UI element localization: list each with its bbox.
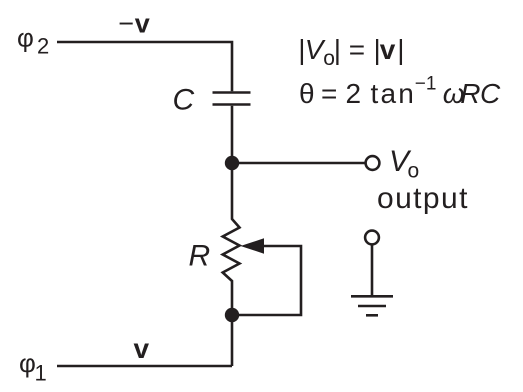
- svg-text:θ=2tan−1ωRC: θ=2tan−1ωRC: [299, 74, 501, 109]
- svg-text:v: v: [134, 333, 150, 364]
- svg-text:Vo: Vo: [389, 145, 419, 183]
- svg-text:φ1: φ1: [19, 348, 47, 385]
- svg-text:R: R: [189, 240, 211, 273]
- svg-text:−v: −v: [118, 9, 150, 39]
- svg-text:output: output: [377, 182, 469, 215]
- svg-text:φ2: φ2: [17, 23, 49, 59]
- svg-text:C: C: [173, 84, 195, 117]
- svg-text:|Vo|=|v|: |Vo|=|v|: [298, 34, 404, 70]
